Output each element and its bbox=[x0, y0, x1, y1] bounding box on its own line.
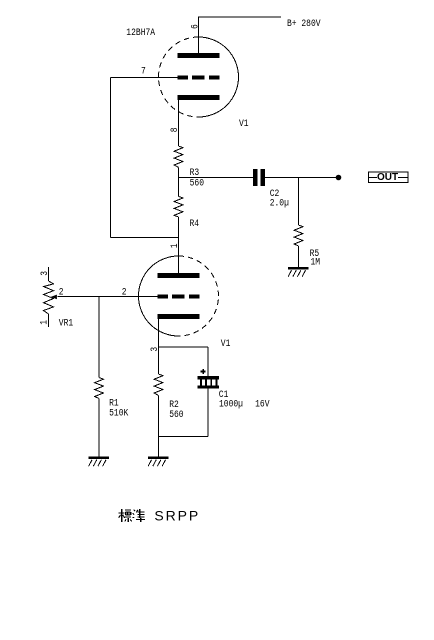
svg-text:560: 560 bbox=[190, 176, 204, 188]
svg-text:1: 1 bbox=[168, 243, 180, 248]
svg-text:3: 3 bbox=[148, 347, 160, 352]
svg-text:16V: 16V bbox=[255, 398, 270, 410]
svg-text:510K: 510K bbox=[109, 407, 129, 419]
svg-text:7: 7 bbox=[141, 64, 146, 76]
svg-text:560: 560 bbox=[169, 408, 183, 420]
svg-text:12BH7A: 12BH7A bbox=[126, 26, 155, 38]
svg-text:V1: V1 bbox=[239, 117, 249, 129]
svg-text:R4: R4 bbox=[190, 217, 200, 229]
svg-text:1M: 1M bbox=[311, 256, 321, 268]
svg-text:VR1: VR1 bbox=[59, 317, 73, 329]
svg-text:2: 2 bbox=[59, 285, 64, 297]
svg-text:SRPP: SRPP bbox=[154, 508, 200, 524]
svg-text:3: 3 bbox=[38, 271, 50, 276]
svg-text:2: 2 bbox=[122, 285, 127, 297]
svg-text:1000µ: 1000µ bbox=[219, 398, 243, 410]
svg-text:8: 8 bbox=[168, 127, 180, 132]
svg-text:OUT: OUT bbox=[377, 172, 398, 183]
svg-text:6: 6 bbox=[188, 24, 200, 29]
svg-text:V1: V1 bbox=[221, 337, 231, 349]
svg-text:2.0µ: 2.0µ bbox=[270, 196, 289, 208]
svg-text:B+ 280V: B+ 280V bbox=[287, 17, 321, 29]
svg-text:1: 1 bbox=[38, 320, 50, 325]
